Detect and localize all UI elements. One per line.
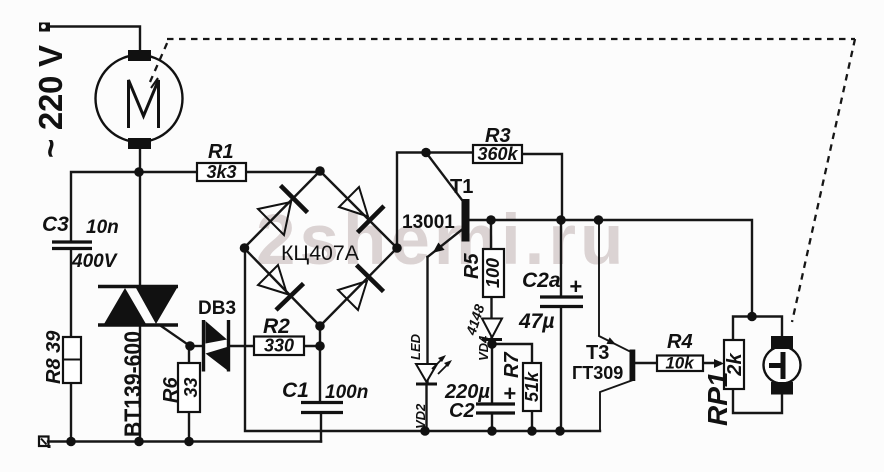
svg-text:2k: 2k — [724, 353, 746, 377]
svg-text:400V: 400V — [71, 251, 118, 272]
svg-text:DB3: DB3 — [198, 298, 236, 319]
svg-text:47µ: 47µ — [518, 310, 554, 333]
svg-text:BT139-600: BT139-600 — [120, 331, 147, 437]
svg-text:VD2: VD2 — [413, 403, 428, 429]
svg-text:T3: T3 — [586, 342, 609, 364]
svg-text:C1: C1 — [282, 379, 309, 402]
svg-text:3k3: 3k3 — [206, 162, 236, 182]
svg-text:+: + — [569, 274, 582, 299]
svg-text:51k: 51k — [522, 371, 542, 402]
svg-text:~ 220 V: ~ 220 V — [32, 45, 69, 158]
svg-text:ГТ309: ГТ309 — [572, 363, 623, 383]
svg-text:330: 330 — [264, 336, 294, 356]
svg-text:10k: 10k — [665, 354, 695, 373]
svg-text:R5: R5 — [461, 253, 483, 279]
svg-text:R6: R6 — [160, 377, 182, 403]
svg-text:R1: R1 — [208, 141, 234, 163]
svg-text:13001: 13001 — [402, 212, 455, 233]
svg-text:R7: R7 — [501, 352, 523, 378]
svg-text:R4: R4 — [667, 331, 693, 353]
svg-text:C2a: C2a — [522, 269, 561, 292]
svg-text:10n: 10n — [86, 217, 119, 238]
svg-text:C3: C3 — [42, 213, 69, 236]
svg-text:КЦ407А: КЦ407А — [281, 242, 359, 265]
svg-text:+: + — [503, 381, 516, 406]
svg-text:360k: 360k — [477, 144, 518, 164]
svg-text:VD4: VD4 — [476, 335, 491, 361]
svg-text:100: 100 — [483, 258, 503, 288]
svg-text:T1: T1 — [450, 176, 473, 198]
svg-text:100n: 100n — [325, 382, 368, 403]
svg-text:33: 33 — [181, 377, 201, 397]
svg-text:RP1: RP1 — [702, 372, 733, 426]
svg-text:R8 39: R8 39 — [43, 330, 65, 384]
svg-text:LED: LED — [408, 333, 423, 360]
svg-text:C2: C2 — [449, 400, 475, 422]
